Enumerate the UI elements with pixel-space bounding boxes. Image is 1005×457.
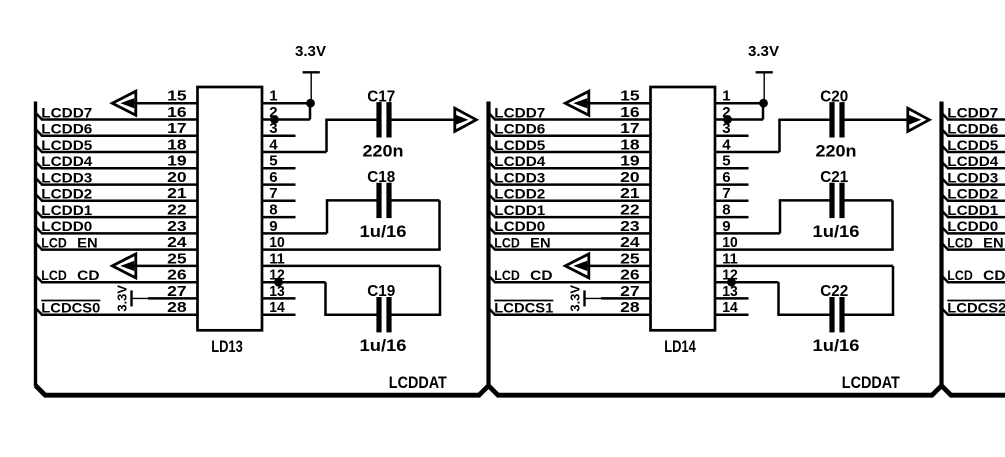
svg-text:CD: CD	[530, 268, 553, 283]
svg-text:LCDD7: LCDD7	[947, 105, 998, 120]
svg-text:3.3V: 3.3V	[114, 285, 129, 312]
svg-text:18: 18	[620, 136, 640, 153]
svg-text:15: 15	[167, 88, 187, 105]
svg-text:C22: C22	[820, 283, 848, 300]
svg-text:LCDDAT: LCDDAT	[842, 373, 901, 392]
svg-text:LCDD2: LCDD2	[41, 187, 92, 202]
svg-text:22: 22	[167, 202, 187, 219]
svg-text:LCDD0: LCDD0	[494, 219, 545, 234]
svg-text:20: 20	[167, 169, 187, 186]
svg-text:18: 18	[167, 136, 187, 153]
svg-text:LD13: LD13	[211, 338, 243, 356]
svg-text:LCDD6: LCDD6	[947, 122, 999, 137]
svg-text:C19: C19	[367, 283, 395, 300]
svg-text:220n: 220n	[363, 141, 404, 160]
svg-text:LCD: LCD	[41, 235, 67, 250]
svg-text:19: 19	[167, 153, 187, 170]
svg-text:LCDD7: LCDD7	[494, 105, 545, 120]
svg-text:CD: CD	[983, 268, 1005, 283]
svg-text:EN: EN	[983, 235, 1004, 250]
svg-text:LCD: LCD	[947, 268, 973, 283]
svg-text:27: 27	[167, 283, 187, 300]
svg-text:24: 24	[167, 234, 187, 251]
svg-text:CD: CD	[77, 268, 100, 283]
svg-text:28: 28	[620, 299, 640, 316]
svg-text:EN: EN	[530, 235, 551, 250]
svg-text:3.3V: 3.3V	[748, 44, 779, 60]
svg-text:LCDD4: LCDD4	[41, 154, 93, 169]
svg-text:LCDD4: LCDD4	[947, 154, 999, 169]
svg-text:LCD: LCD	[494, 268, 520, 283]
svg-text:LCDD3: LCDD3	[41, 170, 93, 185]
svg-text:26: 26	[167, 267, 187, 284]
svg-text:16: 16	[167, 104, 187, 121]
svg-text:LCDD7: LCDD7	[41, 105, 92, 120]
svg-text:20: 20	[620, 169, 640, 186]
svg-text:LCDD5: LCDD5	[947, 138, 999, 153]
svg-text:1u/16: 1u/16	[360, 336, 407, 355]
svg-text:19: 19	[620, 153, 640, 170]
svg-text:25: 25	[167, 250, 187, 267]
svg-text:LCDCS2: LCDCS2	[947, 301, 1005, 316]
svg-text:15: 15	[620, 88, 640, 105]
svg-text:LCDD2: LCDD2	[494, 187, 545, 202]
svg-text:26: 26	[620, 267, 640, 284]
svg-text:LCDD1: LCDD1	[494, 203, 546, 218]
svg-text:C21: C21	[820, 169, 848, 186]
svg-text:3.3V: 3.3V	[567, 285, 582, 312]
svg-text:3.3V: 3.3V	[295, 44, 326, 60]
svg-text:LCDDAT: LCDDAT	[389, 373, 448, 392]
svg-text:25: 25	[620, 250, 640, 267]
svg-text:21: 21	[167, 185, 187, 202]
svg-text:LCDD3: LCDD3	[494, 170, 546, 185]
svg-text:23: 23	[620, 218, 640, 235]
svg-text:1u/16: 1u/16	[813, 336, 860, 355]
svg-text:17: 17	[167, 120, 187, 137]
svg-text:LCDCS1: LCDCS1	[494, 301, 554, 316]
svg-text:LCDD2: LCDD2	[947, 187, 998, 202]
svg-text:LCDD5: LCDD5	[41, 138, 93, 153]
svg-text:LCD: LCD	[947, 235, 973, 250]
svg-text:LCDD0: LCDD0	[947, 219, 998, 234]
svg-text:LCDD1: LCDD1	[947, 203, 999, 218]
svg-text:LCDCS0: LCDCS0	[41, 301, 100, 316]
svg-text:C17: C17	[367, 88, 395, 105]
svg-text:22: 22	[620, 202, 640, 219]
svg-text:24: 24	[620, 234, 640, 251]
svg-text:16: 16	[620, 104, 640, 121]
svg-text:LCDD3: LCDD3	[947, 170, 999, 185]
svg-text:1u/16: 1u/16	[360, 222, 407, 241]
svg-text:1u/16: 1u/16	[813, 222, 860, 241]
svg-text:220n: 220n	[816, 141, 857, 160]
svg-text:LCD: LCD	[494, 235, 520, 250]
svg-text:23: 23	[167, 218, 187, 235]
svg-text:C18: C18	[367, 169, 395, 186]
svg-text:17: 17	[620, 120, 640, 137]
svg-text:LD14: LD14	[664, 338, 696, 356]
svg-text:28: 28	[167, 299, 187, 316]
svg-text:21: 21	[620, 185, 640, 202]
svg-text:LCDD5: LCDD5	[494, 138, 546, 153]
svg-text:LCDD1: LCDD1	[41, 203, 93, 218]
svg-text:LCD: LCD	[41, 268, 67, 283]
svg-text:LCDD6: LCDD6	[494, 122, 546, 137]
svg-text:LCDD6: LCDD6	[41, 122, 93, 137]
svg-text:27: 27	[620, 283, 640, 300]
svg-text:LCDD0: LCDD0	[41, 219, 92, 234]
svg-text:LCDD4: LCDD4	[494, 154, 546, 169]
svg-text:EN: EN	[77, 235, 98, 250]
svg-text:C20: C20	[820, 88, 848, 105]
